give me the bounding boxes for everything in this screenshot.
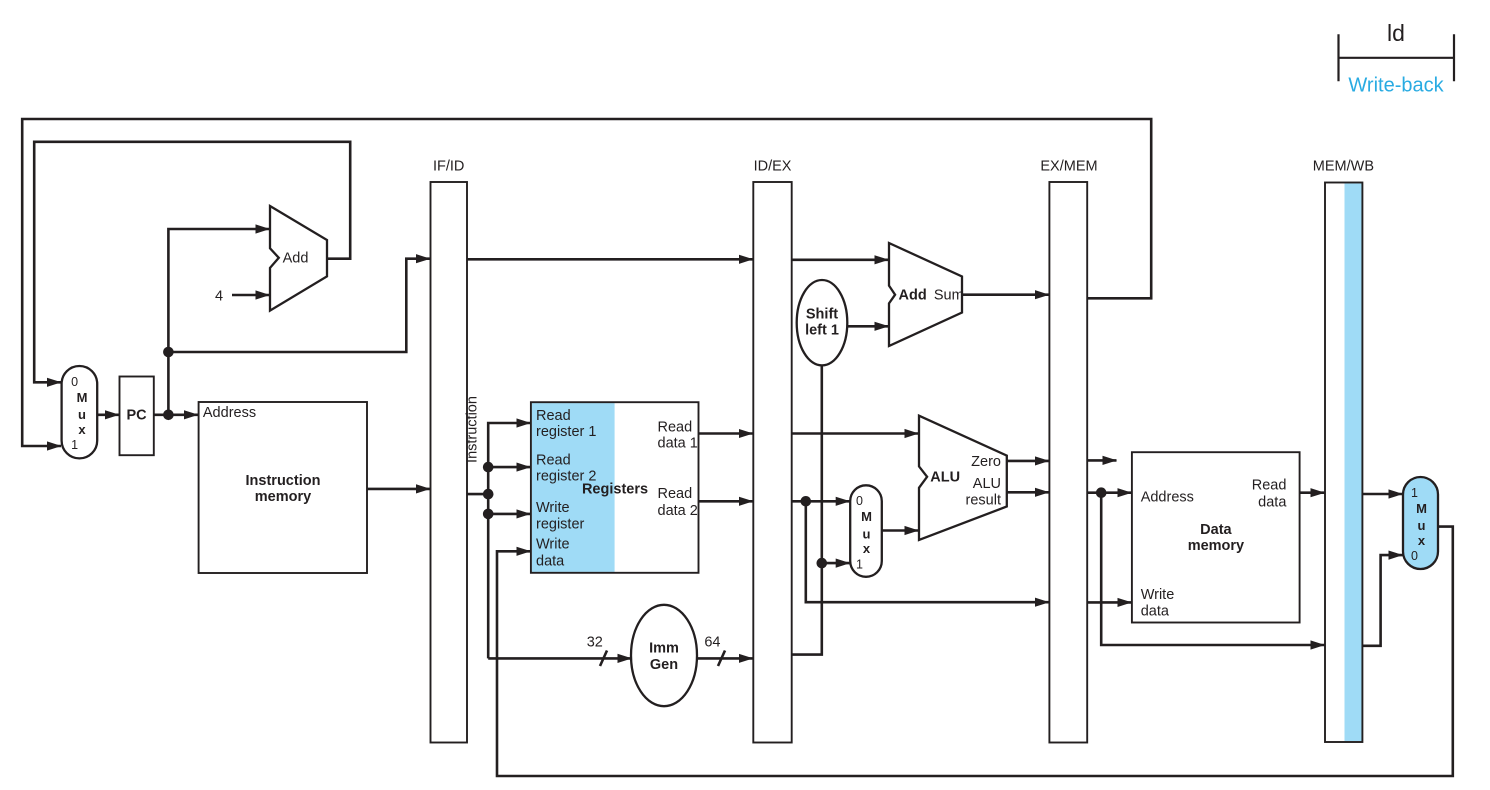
wire EX/MEM ALU result to Data memory Address [1087, 491, 1131, 494]
bracket stage span [1339, 34, 1455, 81]
wire ID/EX immediate up to Shift left 1 [792, 365, 822, 655]
svg-text:Address: Address [1141, 489, 1194, 505]
svg-text:Read: Read [1252, 478, 1287, 494]
adder Add (PC+4) [270, 206, 327, 311]
node ALU result junction [1096, 487, 1107, 498]
svg-text:M: M [77, 390, 88, 405]
svg-text:PC: PC [127, 408, 148, 424]
svg-text:Data: Data [1200, 522, 1232, 538]
mux M3 (write-back mux, highlighted) [1403, 477, 1438, 569]
node instruction bus junction read register 2 [483, 462, 494, 473]
svg-text:x: x [1418, 533, 1426, 548]
block Shift left 1 [797, 280, 848, 365]
svg-text:u: u [1418, 518, 1426, 533]
svg-text:Sum: Sum [934, 288, 964, 304]
wire Read data 2 to ID/EX [699, 500, 753, 503]
wire constant 4 into Add [232, 294, 270, 297]
svg-text:Registers: Registers [582, 481, 648, 497]
wire Shift left 1 to branch Add [848, 325, 889, 328]
svg-text:0: 0 [1411, 549, 1418, 563]
svg-text:data 1: data 1 [658, 435, 698, 451]
svg-text:u: u [78, 407, 86, 422]
svg-text:x: x [863, 541, 871, 556]
svg-text:Imm: Imm [649, 641, 679, 657]
wire ALU result to EX/MEM [1007, 491, 1049, 494]
wire instruction bus vertical [488, 423, 530, 658]
svg-text:0: 0 [71, 375, 78, 389]
memory Instruction memory [199, 402, 367, 573]
svg-text:memory: memory [1188, 538, 1244, 554]
svg-text:4: 4 [215, 289, 223, 305]
wire ALU Zero to EX/MEM [1007, 460, 1049, 463]
node instruction bus junction from IF/ID [483, 489, 494, 500]
wire Imm Gen 64-bit to ID/EX [697, 657, 753, 660]
wire ID/EX PC to branch Add [792, 258, 889, 261]
svg-text:1: 1 [71, 438, 78, 452]
wire MEM/WB ALU result to write-back mux input 0 [1363, 555, 1403, 646]
pipeline register IF/ID [431, 182, 468, 743]
svg-text:64: 64 [704, 635, 720, 651]
memory Data memory [1132, 452, 1300, 622]
wire branch Add Sum to EX/MEM [962, 293, 1049, 296]
wire PC value to IF/ID [168, 259, 430, 352]
svg-text:u: u [863, 527, 871, 542]
register file Registers [532, 403, 698, 572]
slash 32-bit width tick [600, 651, 607, 667]
svg-text:Write: Write [536, 537, 570, 553]
svg-text:Instruction: Instruction [464, 396, 480, 463]
mux M1 (PC source mux) [62, 366, 98, 458]
wire write-back mux output to Registers Write data [497, 527, 1453, 776]
wire ALU result bypass to MEM/WB [1101, 493, 1324, 645]
wire instruction to Read register 2 [488, 466, 530, 469]
wire EX/MEM Zero stub [1087, 459, 1116, 462]
wire IF/ID PC to ID/EX [467, 258, 753, 261]
svg-text:Add: Add [899, 287, 927, 303]
svg-text:data: data [536, 553, 565, 569]
svg-text:Write: Write [1141, 587, 1175, 603]
svg-text:register 1: register 1 [536, 424, 596, 440]
svg-text:M: M [1416, 501, 1427, 516]
svg-text:Shift: Shift [806, 307, 838, 323]
svg-text:M: M [861, 509, 872, 524]
svg-text:Add: Add [283, 251, 309, 267]
pipeline register MEM/WB (write-back stage highlighted) [1325, 183, 1362, 743]
svg-text:data: data [1258, 494, 1287, 510]
adder Add (branch target) [889, 243, 962, 346]
svg-text:register: register [536, 517, 585, 533]
svg-text:ld: ld [1387, 20, 1405, 46]
svg-text:1: 1 [856, 557, 863, 571]
node PC value junction [163, 347, 174, 358]
wire read data 2 down to EX/MEM write data [806, 501, 1049, 602]
svg-text:Read: Read [658, 419, 693, 435]
svg-text:data: data [1141, 603, 1170, 619]
wire PC value up to Add input [168, 229, 269, 415]
svg-text:1: 1 [1411, 486, 1418, 500]
wire PC+4 loop (Add output back to PC mux input 0) [34, 142, 350, 382]
svg-text:ALU: ALU [973, 476, 1001, 492]
wire ALU mux to ALU input [882, 529, 919, 532]
wire MEM/WB read data to write-back mux input 1 [1363, 493, 1403, 496]
svg-text:left 1: left 1 [805, 323, 839, 339]
wire immediate branch to ALU mux input 1 [822, 562, 850, 565]
node read data 2 junction [801, 496, 812, 507]
mux M2 (ALU operand mux) [850, 485, 882, 577]
pipeline register EX/MEM [1049, 182, 1087, 743]
svg-text:memory: memory [255, 489, 311, 505]
wire PC to Instruction memory Address [154, 413, 198, 416]
svg-text:Gen: Gen [650, 657, 678, 673]
svg-text:ID/EX: ID/EX [754, 159, 792, 175]
wire ID/EX read data 2 to ALU mux input 0 [792, 500, 850, 503]
register PC [120, 377, 154, 456]
svg-text:ALU: ALU [930, 469, 960, 485]
svg-text:data 2: data 2 [658, 503, 698, 519]
svg-text:x: x [78, 422, 86, 437]
pipeline register ID/EX [753, 182, 791, 743]
svg-text:Instruction: Instruction [246, 473, 321, 489]
block Imm Gen [631, 605, 697, 706]
svg-text:0: 0 [856, 494, 863, 508]
node immediate junction [817, 558, 828, 569]
wire ID/EX read data 1 to ALU [792, 432, 919, 435]
wire IF/ID instruction to bus [467, 493, 490, 496]
slash 64-bit width tick [718, 651, 725, 667]
ALU [919, 416, 1007, 540]
wire instruction 32-bit to Imm Gen [488, 657, 631, 660]
wire mux to PC [97, 413, 119, 416]
wire Instruction memory to IF/ID [367, 488, 430, 491]
svg-text:IF/ID: IF/ID [433, 159, 464, 175]
svg-text:Read: Read [536, 408, 571, 424]
svg-text:Read: Read [536, 452, 571, 468]
node instruction bus junction write register [483, 509, 494, 520]
wire branch-target loop (EX/MEM Sum back to PC mux input 1) [22, 119, 1151, 446]
svg-text:result: result [966, 493, 1001, 509]
wire Data memory Read data to MEM/WB [1300, 491, 1325, 494]
node PC output junction [163, 410, 174, 421]
wire Read data 1 to ID/EX [699, 432, 753, 435]
wire EX/MEM write data to Data memory [1087, 601, 1131, 604]
svg-text:Address: Address [203, 405, 256, 421]
svg-text:Write: Write [536, 500, 570, 516]
svg-text:Write-back: Write-back [1348, 75, 1444, 97]
svg-text:32: 32 [587, 635, 603, 651]
wire instruction to Write register [488, 513, 530, 516]
svg-text:Zero: Zero [971, 454, 1001, 470]
svg-text:Read: Read [658, 486, 693, 502]
svg-text:EX/MEM: EX/MEM [1040, 159, 1097, 175]
svg-text:MEM/WB: MEM/WB [1313, 159, 1374, 175]
